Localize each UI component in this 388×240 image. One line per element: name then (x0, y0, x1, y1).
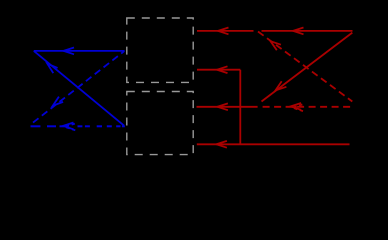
lower dashed box (127, 92, 193, 155)
wire blue dashed bottom horizontal (explicit dashes) (31, 125, 41, 127)
arrowhead 1 on red top horizontal (218, 28, 229, 35)
arrowhead on blue solid diagonal (47, 64, 57, 73)
arrowhead mid on red dashed diagonal (271, 41, 281, 50)
arrowhead on red bottom horizontal (216, 141, 227, 148)
wire red dashed bottom horizontal (263, 106, 351, 108)
wire red solid top horizontal left segment (197, 30, 254, 32)
arrowhead on blue top horizontal (64, 48, 75, 55)
wire red solid bottom-left horizontal (197, 106, 258, 108)
arrowhead on red solid diagonal (276, 81, 287, 90)
upper dashed box (127, 18, 193, 82)
wire red short horizontal stub (197, 69, 240, 71)
wire red vertical connector (239, 70, 241, 145)
wire red solid top horizontal right segment (262, 30, 353, 32)
arrowhead on blue dashed bottom horizontal (upper chevron) (63, 123, 73, 130)
arrowhead on red short horizontal stub (217, 66, 228, 73)
arrowhead mid on blue dashed diagonal (53, 97, 63, 106)
wire blue dashed diagonal (33, 51, 124, 123)
arrowhead on red solid bottom-left horizontal (217, 103, 228, 110)
arrowhead on blue dashed bottom horizontal (lower chevron, fragmented) (65, 124, 75, 131)
arrowhead on red dashed bottom horizontal (lower chevron, fragmented) (293, 104, 304, 111)
wire blue solid diagonal (34, 51, 124, 126)
wire red solid diagonal (262, 33, 353, 102)
wire blue solid top horizontal (34, 50, 125, 52)
arrowhead 2 on red top horizontal (293, 28, 304, 35)
wire red bottom horizontal (197, 143, 350, 145)
arrowhead on red dashed bottom horizontal (upper chevron) (291, 103, 302, 110)
wire red dashed diagonal (258, 32, 352, 102)
